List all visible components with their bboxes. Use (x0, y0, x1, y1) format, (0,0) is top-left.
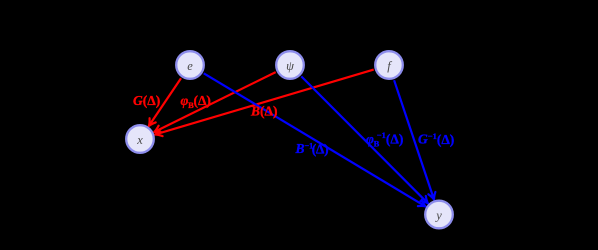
wire e->y (blue arrow) (204, 73, 426, 206)
svg-text:B(Δ): B(Δ) (250, 104, 277, 119)
svg-text:G(Δ): G(Δ) (133, 93, 160, 108)
svg-text:φB(Δ): φB(Δ) (181, 93, 211, 110)
svg-text:G−1(Δ): G−1(Δ) (418, 131, 454, 147)
svg-text:e: e (187, 59, 193, 73)
wire e->x (red arrow) (149, 78, 181, 126)
svg-text:φB−1(Δ): φB−1(Δ) (366, 130, 403, 148)
node e (176, 51, 204, 79)
node y (425, 201, 453, 229)
node psi (276, 51, 304, 79)
wire f->x (red arrow) (155, 70, 374, 135)
wire psi->y (blue arrow) (301, 76, 428, 203)
svg-text:y: y (434, 208, 442, 222)
svg-text:x: x (136, 133, 143, 147)
wire psi->x (red arrow) (154, 72, 276, 132)
node f (375, 51, 403, 79)
svg-text:B−1(Δ): B−1(Δ) (295, 141, 329, 157)
wire f->y (blue arrow) (394, 80, 434, 199)
node x (126, 125, 154, 153)
svg-text:ψ: ψ (286, 59, 294, 73)
